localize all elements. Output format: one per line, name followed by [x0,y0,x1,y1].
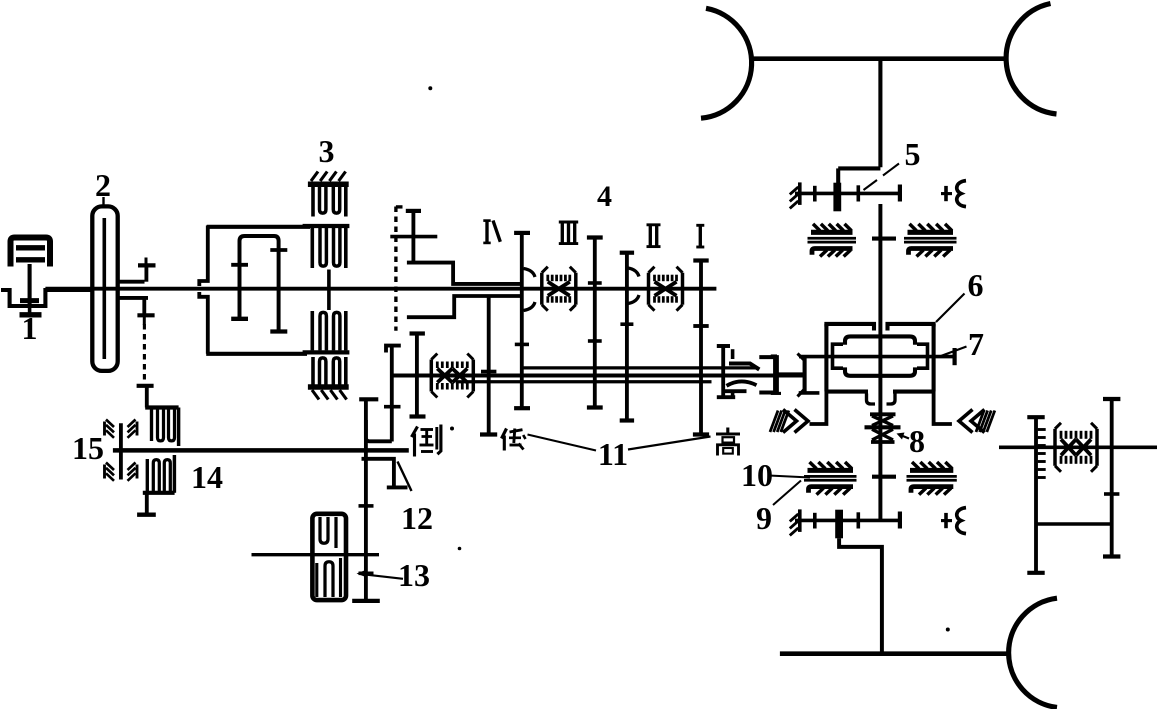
label 9 leader [773,481,801,506]
label 6 leader [936,294,965,323]
gear IV tick [515,343,529,347]
pressure plate upper stem [144,265,148,281]
comp8 X upper [872,416,893,426]
lower brake center bar [872,475,896,479]
clutch 3 lower driven plates [310,311,314,350]
pressure plate lower stem [142,298,146,314]
upper pto outer bearing [941,192,952,195]
coupling hub upper [731,349,735,359]
damper tick right [270,248,287,252]
final gear A spline ticks [1038,428,1046,431]
gear I mid bar [693,324,708,328]
bevel pinion housing [759,357,777,392]
pulley groove lower loop [325,562,333,597]
pto clutch top T [137,384,154,388]
comp8 bottom bar [871,440,895,444]
pulley groove upper line [334,517,337,548]
clutch 3 bottom hatch [312,390,319,400]
pinion shaft segment [777,372,803,376]
pinion bearing foot [771,392,781,395]
dog sleeve tick [620,322,633,326]
pto clutch lower bar [143,491,175,495]
upper brake center bar [872,237,896,241]
final gear A top T [1027,415,1044,419]
reverse idler stem [415,334,419,417]
diff bevel crown upper [845,336,915,344]
pto through gear T-cap [406,209,421,213]
damper element (spring loop) [240,236,279,331]
final gear B tick [1104,492,1119,496]
front wheel right [1006,4,1056,115]
label di (low) glyph [502,429,507,439]
svg-text:15: 15 [72,430,104,466]
axle drop vertical [878,59,882,168]
upper pto bearing tick a [813,186,817,202]
brake 15 pad upper-right [128,420,136,428]
clutch 3 upper driving plates [311,186,315,217]
crankshaft jog [1,290,93,306]
dog sleeve bottom T [620,418,634,422]
pulley shaft tick 1 [359,504,374,508]
brake 15 pad lower-right [128,463,136,471]
pulley shaft bottom T [352,599,380,603]
pressure plate lower nub [143,317,146,325]
left final-drive arrow hatch [770,411,778,433]
upper brake left [811,230,853,235]
damper foot right [270,329,287,333]
gear I bottom T [693,432,709,436]
gear IV top T [514,231,530,235]
pto clutch bottom T [137,513,156,517]
svg-text:6: 6 [968,267,984,303]
lower pto shaft [795,519,900,523]
low range gear tick [481,370,496,374]
lower pto anchor hatch [798,509,802,532]
crown wheel serif top [798,354,805,361]
piston ring 1 [16,245,45,250]
dog sleeve top T [620,251,634,255]
dot c [458,547,462,551]
clutch 3 shaft tick [327,270,331,311]
lower pto bearing tick a [813,513,817,529]
damper tick left [231,263,248,267]
pulley groove lower line2 [339,558,342,597]
rear axle right T [952,348,956,365]
pto brake gear 15 stem [119,423,123,479]
pto clutch lower plates [146,459,149,492]
coupling sleeve bottom arc [727,381,757,385]
damper housing top edge [207,225,310,229]
coupling hub lower [731,392,735,399]
label 5 leader [883,164,899,176]
connecting rod [28,264,32,307]
upper pto bearing tick b [856,185,860,201]
piston ring 2 [16,257,45,262]
coupling flange top T [717,344,730,348]
clutch 3 bottom cap [308,384,349,390]
leader low-11 [528,435,597,451]
fork T-cap [387,485,408,489]
front wheel left (half shown) [701,8,752,118]
svg-text:1: 1 [22,310,38,346]
dot b [450,427,454,431]
main input shaft [45,287,716,291]
pto through gear stem [411,211,415,263]
pto clutch upper bar [145,405,178,409]
reverse gear stem [390,346,394,442]
damper housing left wall upper [199,226,208,287]
dot a [428,86,432,90]
label 10 leader [769,476,810,478]
lower pto end T [898,512,902,529]
label dao (reverse) glyph [412,427,418,438]
label III [559,221,578,224]
synchro III on main shaft [540,273,543,305]
comp8 top bar [870,412,896,416]
gear I top T [693,258,708,262]
pressure plate upper nub [145,258,148,266]
flywheel body 2 [92,206,117,371]
coupling lower bar [725,389,747,393]
pinion bearing nub [771,354,777,357]
rear wheel bottom [1009,598,1057,707]
final gear B top T [1103,397,1120,401]
bottom axle [780,651,1008,656]
diff side gear right [917,344,928,368]
left final-drive arrow chevrons [783,410,797,433]
upper pto end T [898,185,902,202]
lower brake right [910,468,953,473]
top axle [752,56,1004,61]
diff side gear left [833,344,844,368]
svg-text:5: 5 [905,136,921,172]
dashed link to PTO clutch [143,324,146,382]
label gao (high) glyph [726,428,729,433]
dog sleeve hook upper [628,268,639,277]
comp8 X lower [872,429,893,440]
synchro reverse-low on range shaft [430,360,433,392]
reverse idler top T [410,331,425,335]
upper brake right [908,230,954,235]
reverse gear hook cap [386,346,401,353]
label 7 leader [942,347,967,356]
reverse gear tick [384,405,401,409]
pulley groove upper loop [320,517,328,543]
damper housing bottom edge [206,352,307,356]
rear axle through diff [799,355,955,359]
comp8 cup right [887,394,896,405]
comp8 cup left [867,394,876,405]
belt pulley 13 body [312,514,346,600]
input sleeve upper step [407,263,522,284]
crank pin bar [20,298,39,303]
label II [647,223,661,226]
svg-text:9: 9 [756,500,772,536]
label 13 leader [359,574,403,579]
svg-text:11: 11 [598,436,628,472]
jog vertical [836,168,840,184]
diff housing left wall [824,324,828,392]
upper pto shaft [795,192,900,196]
diff housing bottom right [893,390,935,394]
pulley shaft tick 2 [359,571,374,575]
clutch 3 lower hub bar [303,350,350,354]
diff housing right wall [932,324,936,392]
coupling sleeve top [729,364,759,370]
pto clutch upper plates [150,409,153,441]
coupling flange bottom T [717,395,735,399]
range shaft sleeve upper [521,366,756,369]
comp8 mid bar [865,425,901,429]
svg-text:3: 3 [319,133,335,169]
pto shaft line [113,448,409,452]
range shaft center line [392,374,803,378]
final unit shaft [999,445,1157,449]
fork diagonal [398,462,412,492]
clutch cover flange lower [118,296,148,300]
svg-text:13: 13 [398,557,430,593]
clutch 3 lower driving plates [311,357,315,385]
clutch 3 top cap [308,182,349,188]
dog sleeve stem [625,253,629,421]
gear III bottom T [587,405,603,409]
gear III tick lower [588,339,602,343]
svg-text:8: 8 [909,423,925,459]
gear IV stem [520,233,524,408]
gear IV dog hook lower [524,302,536,311]
crown wheel stem [803,357,807,393]
pressure plate upper T [138,263,156,267]
pulley vertical shaft [364,399,368,601]
leader 11-high [628,437,711,450]
diff leg right [934,392,952,424]
crown wheel serif bottom [798,389,805,397]
lower brake left [808,468,854,473]
svg-text:10: 10 [741,457,773,493]
final gear B bottom T [1103,554,1120,558]
diff bevel crown lower [845,367,915,375]
low range gear bottom T [480,432,497,436]
gear III tick upper [588,281,602,285]
label IV [485,221,488,243]
label 2 pointer tick [102,197,104,206]
pinion gear 5 (solid) [833,183,841,212]
final drive drop path [839,538,882,653]
label I [696,224,704,227]
damper housing left wall lower [199,292,208,354]
gear I stem [699,261,703,435]
diff housing top left [826,324,874,331]
clutch 3 upper hub bar [303,224,350,228]
diff housing top right [888,324,934,331]
lower pto outer bearing [941,519,952,522]
synchro II on main shaft [647,273,650,305]
gear IV dog hook upper [524,269,536,278]
upper pto anchor hatch [798,182,802,205]
lower pto bearing tick b [856,512,860,528]
pto clutch stem top [145,387,149,408]
diff leg left [810,392,827,424]
pto clutch stem bottom [145,493,149,514]
coupling U bottom [366,420,392,441]
svg-text:7: 7 [968,326,984,362]
pinion bearing tick [773,356,777,393]
svg-text:14: 14 [191,459,223,495]
svg-text:12: 12 [401,500,433,536]
pulley axle line [252,553,380,556]
label 13 leader arrow [357,570,366,576]
pulley groove lower line [315,563,318,597]
reverse idler bottom T [410,414,426,418]
right final-drive arrow hatch [976,411,984,433]
svg-text:4: 4 [597,180,612,213]
dot d [946,628,950,632]
input sleeve lower step [407,296,522,317]
gear IV bottom T [514,406,530,410]
range shaft sleeve lower [456,380,712,383]
final gear B stem [1110,399,1114,557]
gearbox dashed boundary [394,207,397,331]
brake 15 pad upper-left [106,420,114,428]
lower pinion gear (solid) [835,510,843,539]
gear III top T [587,235,603,239]
crown wheel bottom bar [799,391,820,395]
flywheel inner line [103,218,107,359]
pressure plate lower T [137,313,154,317]
jog horizontal [838,166,880,170]
final gear A stem [1034,417,1038,573]
damper foot left [231,317,248,321]
clutch 3 upper driven plates [310,228,314,268]
counterweight bar [20,312,42,317]
engagement fork bracket [362,459,394,486]
right final-drive arrow chevrons [959,410,973,433]
dog sleeve hook lower [628,295,639,304]
pto through gear crossbar [390,235,437,239]
low range gear stem [487,296,491,435]
clutch cover flange upper [118,280,145,284]
label 8 leader [899,435,909,439]
brake 15 pad lower-left [106,463,114,471]
central bevel shaft vertical [878,204,882,520]
label 8 arrow [897,433,905,440]
final unit synchro [1053,429,1056,466]
gear III stem [593,238,597,408]
counterweight tick [28,306,32,313]
final gear A bottom T [1027,571,1044,575]
diff housing bottom left [825,390,868,394]
engine E piston cylinder [11,238,51,267]
final unit cross bar [1036,522,1112,526]
coupling flange stem [721,346,725,397]
pulley shaft top T [359,397,378,401]
clutch 3 top hatch [311,172,318,182]
